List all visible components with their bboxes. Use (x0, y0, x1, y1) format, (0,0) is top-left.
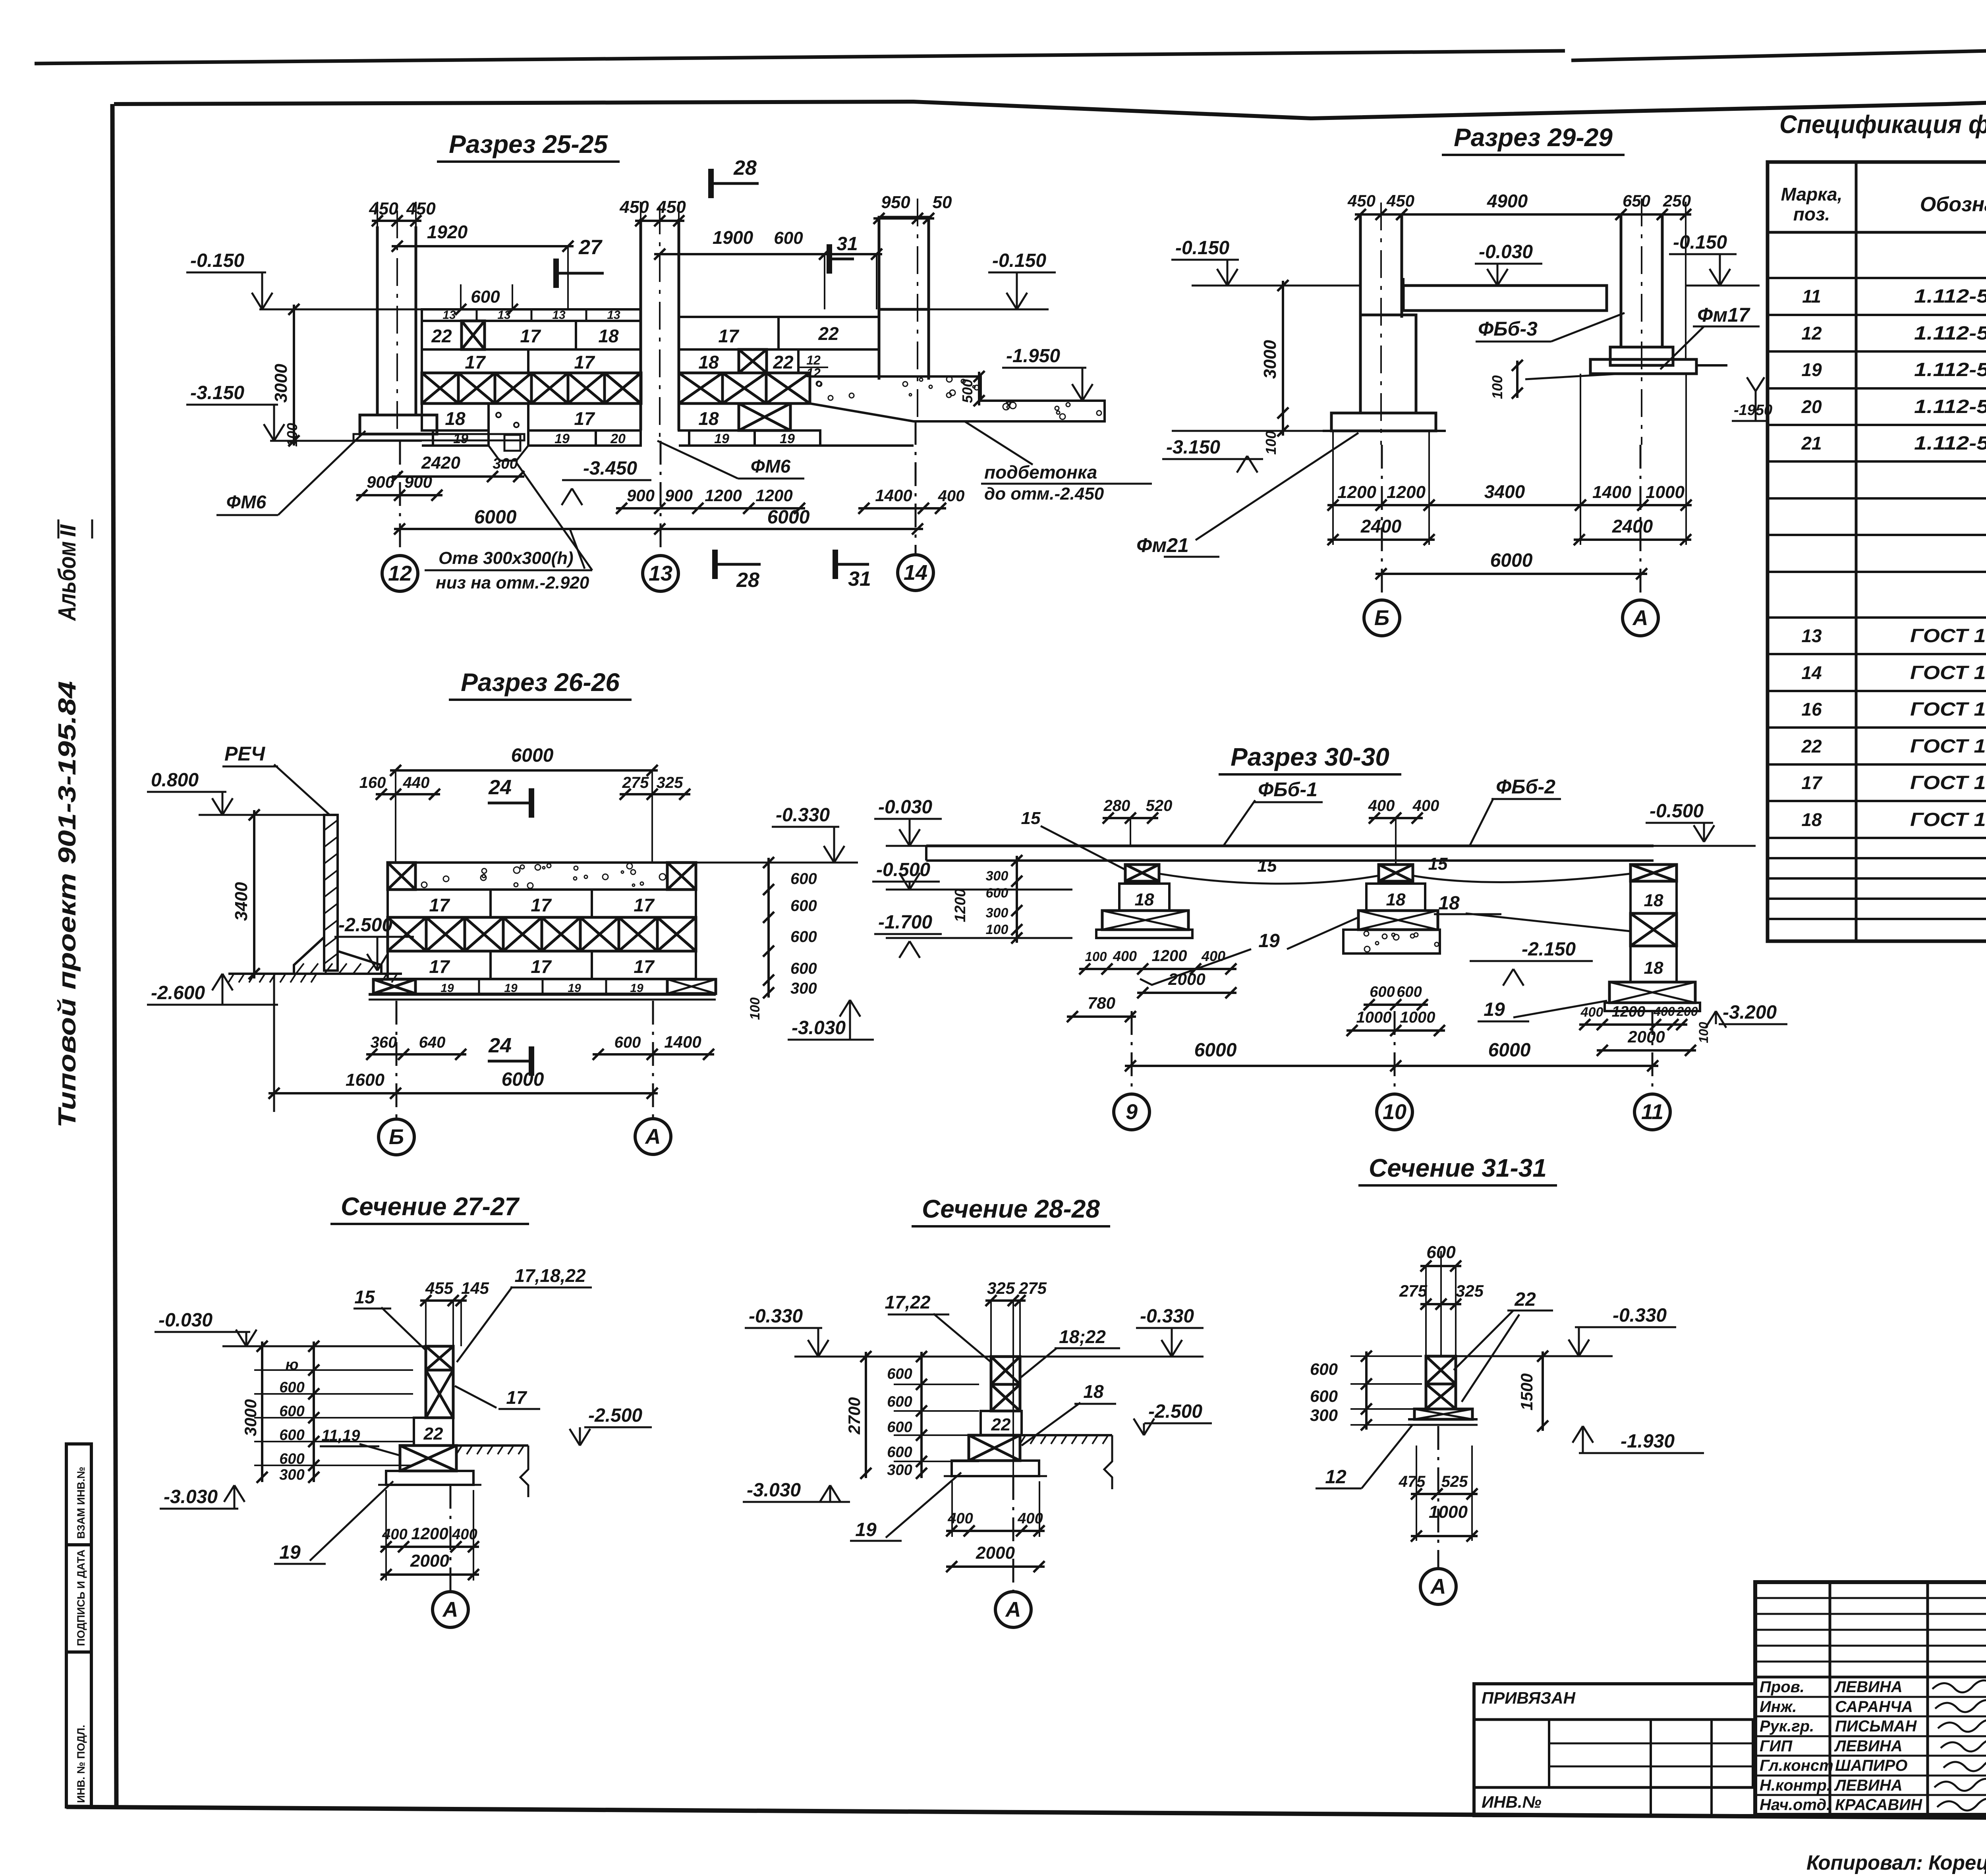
svg-text:28: 28 (733, 156, 757, 179)
svg-text:А: А (1005, 1598, 1021, 1621)
svg-text:22: 22 (818, 323, 839, 344)
svg-text:ИНВ. № ПОДЛ.: ИНВ. № ПОДЛ. (75, 1725, 87, 1803)
svg-text:18: 18 (1644, 891, 1663, 910)
svg-text:600: 600 (790, 870, 817, 888)
svg-text:2400: 2400 (1612, 516, 1653, 537)
svg-text:ГОСТ 13579-78: ГОСТ 13579-78 (1910, 699, 1986, 720)
svg-text:100: 100 (1085, 949, 1107, 964)
svg-text:400: 400 (1201, 948, 1225, 964)
svg-text:-0.030: -0.030 (878, 797, 932, 818)
svg-text:ЛЕВИНА: ЛЕВИНА (1834, 1737, 1903, 1755)
svg-text:3000: 3000 (271, 364, 291, 403)
svg-text:360: 360 (371, 1034, 397, 1051)
svg-text:15: 15 (1428, 854, 1448, 874)
svg-text:19: 19 (453, 431, 468, 446)
svg-text:18: 18 (1135, 890, 1154, 909)
svg-text:3400: 3400 (232, 882, 251, 921)
svg-text:16: 16 (1801, 699, 1822, 720)
svg-text:1200: 1200 (1152, 947, 1187, 965)
svg-text:ГОСТ 13579-78: ГОСТ 13579-78 (1910, 625, 1986, 647)
svg-text:100: 100 (986, 922, 1008, 937)
svg-text:650: 650 (1623, 191, 1650, 210)
svg-text:11: 11 (1802, 286, 1821, 307)
svg-text:10: 10 (1383, 1100, 1406, 1124)
svg-text:15: 15 (354, 1287, 375, 1307)
svg-text:-0.030: -0.030 (1479, 241, 1533, 262)
svg-text:21: 21 (1801, 433, 1822, 454)
svg-text:1400: 1400 (1592, 483, 1631, 502)
svg-text:19: 19 (630, 982, 643, 995)
svg-text:600: 600 (887, 1393, 912, 1410)
svg-text:275: 275 (1399, 1282, 1428, 1300)
svg-text:17,18,22: 17,18,22 (514, 1265, 585, 1286)
svg-text:780: 780 (1088, 994, 1115, 1012)
svg-text:1200: 1200 (1337, 483, 1376, 502)
svg-text:РЕЧ: РЕЧ (224, 743, 266, 765)
svg-text:Разрез 26-26: Разрез 26-26 (461, 668, 620, 697)
svg-text:6000: 6000 (474, 507, 517, 528)
svg-text:17,22: 17,22 (885, 1292, 931, 1312)
svg-text:14: 14 (904, 561, 927, 585)
svg-text:19: 19 (1801, 359, 1822, 380)
svg-text:6000: 6000 (767, 507, 810, 528)
svg-text:19: 19 (554, 431, 570, 446)
svg-text:300: 300 (493, 455, 518, 472)
svg-text:Фм21: Фм21 (1136, 534, 1189, 556)
svg-text:1.112-5 вып.2: 1.112-5 вып.2 (1914, 359, 1986, 380)
svg-text:325: 325 (1456, 1282, 1484, 1300)
svg-text:6000: 6000 (511, 745, 554, 766)
svg-text:600: 600 (1310, 1360, 1338, 1378)
svg-text:3000: 3000 (241, 1399, 260, 1436)
svg-text:17: 17 (465, 352, 486, 372)
svg-text:Сечение 27-27: Сечение 27-27 (341, 1192, 520, 1221)
svg-text:19: 19 (780, 431, 795, 446)
svg-text:1200: 1200 (411, 1524, 448, 1543)
svg-text:низ на отм.-2.920: низ на отм.-2.920 (436, 573, 589, 593)
svg-text:6000: 6000 (1488, 1040, 1531, 1061)
svg-text:1500: 1500 (1517, 1373, 1536, 1410)
svg-text:Обозначение: Обозначение (1920, 193, 1986, 216)
svg-text:300: 300 (790, 980, 817, 997)
svg-text:12: 12 (388, 562, 412, 585)
svg-text:24: 24 (488, 776, 512, 799)
svg-text:Разрез 25-25: Разрез 25-25 (449, 130, 608, 158)
svg-text:1200: 1200 (952, 889, 969, 923)
svg-text:САРАНЧА: САРАНЧА (1835, 1698, 1913, 1716)
svg-text:Б: Б (1374, 606, 1389, 630)
svg-text:19: 19 (279, 1542, 301, 1563)
svg-text:-3.150: -3.150 (190, 382, 244, 403)
svg-text:50: 50 (933, 193, 952, 212)
svg-text:600: 600 (790, 928, 817, 946)
svg-text:1200: 1200 (1612, 1004, 1646, 1020)
svg-text:600: 600 (790, 897, 817, 915)
svg-text:Сечение 28-28: Сечение 28-28 (922, 1195, 1100, 1223)
svg-text:-0.030: -0.030 (158, 1310, 213, 1331)
svg-text:450: 450 (1386, 191, 1414, 210)
svg-text:17: 17 (718, 326, 740, 346)
svg-text:ГИП: ГИП (1760, 1737, 1793, 1755)
svg-text:900: 900 (367, 473, 394, 491)
svg-text:400: 400 (947, 1510, 973, 1527)
svg-text:24: 24 (488, 1034, 512, 1057)
svg-text:2420: 2420 (421, 453, 460, 473)
svg-text:-2.150: -2.150 (1522, 939, 1576, 960)
svg-text:600: 600 (279, 1427, 304, 1444)
svg-text:6000: 6000 (502, 1069, 544, 1090)
svg-text:подбетонка: подбетонка (984, 462, 1097, 483)
svg-text:28: 28 (736, 569, 759, 592)
svg-text:17: 17 (634, 956, 655, 977)
svg-text:275: 275 (1018, 1279, 1047, 1297)
svg-text:100: 100 (1696, 1022, 1711, 1043)
svg-text:3400: 3400 (1484, 481, 1525, 502)
svg-text:-2.500: -2.500 (1148, 1401, 1202, 1422)
svg-text:31: 31 (837, 234, 858, 255)
svg-text:19: 19 (1484, 999, 1505, 1020)
svg-text:Отв 300х300(h): Отв 300х300(h) (439, 548, 574, 568)
svg-text:-1.930: -1.930 (1621, 1431, 1675, 1452)
svg-text:1600: 1600 (346, 1070, 384, 1090)
svg-text:27: 27 (578, 236, 603, 259)
svg-text:600: 600 (887, 1419, 912, 1436)
svg-text:19: 19 (1258, 930, 1280, 952)
svg-text:-0.330: -0.330 (776, 805, 830, 826)
svg-text:450: 450 (656, 197, 686, 217)
svg-text:640: 640 (419, 1034, 446, 1051)
svg-text:ПИСЬМАН: ПИСЬМАН (1835, 1718, 1917, 1735)
svg-text:1.112-5 вып.2: 1.112-5 вып.2 (1914, 433, 1986, 454)
svg-text:19: 19 (714, 431, 729, 446)
svg-text:-3.150: -3.150 (1166, 437, 1220, 458)
svg-text:600: 600 (1370, 984, 1395, 1000)
svg-text:2000: 2000 (1627, 1027, 1665, 1046)
svg-text:-2.600: -2.600 (151, 982, 205, 1004)
svg-text:-0.500: -0.500 (876, 859, 930, 880)
svg-text:-0.330: -0.330 (749, 1306, 803, 1327)
svg-text:900: 900 (627, 486, 655, 505)
svg-text:ИНВ.№: ИНВ.№ (1482, 1793, 1542, 1811)
svg-text:ФБб-1: ФБб-1 (1258, 778, 1318, 801)
svg-text:12: 12 (1801, 323, 1822, 344)
svg-text:325: 325 (987, 1279, 1015, 1297)
svg-text:100: 100 (748, 998, 763, 1020)
svg-text:400: 400 (1368, 797, 1395, 814)
svg-text:-1.950: -1.950 (1006, 345, 1060, 367)
svg-text:Альбом: Альбом (54, 541, 81, 621)
svg-text:15: 15 (1021, 809, 1041, 828)
svg-text:ВЗАМ ИНВ.№: ВЗАМ ИНВ.№ (75, 1467, 87, 1539)
svg-text:19: 19 (440, 982, 454, 995)
svg-text:1400: 1400 (664, 1033, 701, 1051)
svg-text:18: 18 (1801, 809, 1822, 830)
svg-text:400: 400 (1412, 797, 1439, 814)
svg-text:400: 400 (382, 1526, 407, 1543)
svg-text:1.112-5 вып.2: 1.112-5 вып.2 (1914, 323, 1986, 344)
svg-text:17: 17 (429, 895, 450, 915)
svg-text:-2.500: -2.500 (588, 1405, 642, 1426)
svg-text:6000: 6000 (1194, 1040, 1237, 1061)
svg-text:100: 100 (1489, 375, 1505, 399)
svg-text:600: 600 (614, 1034, 641, 1051)
svg-text:300: 300 (1310, 1406, 1338, 1424)
svg-text:950: 950 (881, 193, 910, 212)
svg-text:280: 280 (1103, 797, 1130, 814)
svg-text:18: 18 (698, 408, 719, 429)
svg-text:900: 900 (404, 473, 432, 491)
svg-text:600: 600 (471, 287, 500, 307)
svg-text:ЛЕВИНА: ЛЕВИНА (1834, 1777, 1903, 1794)
svg-text:600: 600 (1397, 984, 1422, 1000)
svg-text:17: 17 (531, 956, 552, 977)
svg-text:1000: 1000 (1400, 1009, 1435, 1026)
svg-text:300: 300 (279, 1467, 304, 1483)
svg-text:Разрез 30-30: Разрез 30-30 (1231, 743, 1389, 771)
svg-text:12: 12 (1325, 1467, 1347, 1488)
svg-text:КРАСАВИН: КРАСАВИН (1835, 1796, 1922, 1814)
svg-text:1000: 1000 (1429, 1502, 1468, 1522)
svg-text:-0.150: -0.150 (992, 250, 1046, 271)
svg-text:Инж.: Инж. (1760, 1698, 1797, 1716)
svg-text:-3.030: -3.030 (792, 1017, 846, 1038)
svg-text:400: 400 (1017, 1510, 1043, 1527)
svg-text:-1.700: -1.700 (878, 912, 932, 933)
svg-text:15: 15 (1258, 856, 1277, 876)
svg-text:450: 450 (369, 199, 398, 218)
svg-text:ФМ6: ФМ6 (226, 492, 267, 512)
svg-text:19: 19 (855, 1519, 877, 1540)
svg-text:20: 20 (610, 431, 626, 446)
svg-text:145: 145 (461, 1279, 489, 1297)
svg-text:600: 600 (887, 1366, 912, 1382)
svg-text:Нач.отд.: Нач.отд. (1760, 1796, 1831, 1814)
svg-text:600: 600 (774, 228, 803, 248)
svg-text:900: 900 (665, 486, 693, 505)
svg-text:А: А (645, 1125, 661, 1148)
svg-text:-3.200: -3.200 (1723, 1002, 1777, 1023)
svg-text:ГОСТ 13579-78: ГОСТ 13579-78 (1910, 809, 1986, 830)
svg-text:Рук.гр.: Рук.гр. (1760, 1718, 1814, 1735)
svg-text:18: 18 (1083, 1381, 1104, 1402)
svg-text:17: 17 (1801, 772, 1823, 793)
svg-text:Копировал: Корецкая: Копировал: Корецкая (1806, 1851, 1986, 1874)
svg-text:-0.150: -0.150 (190, 250, 244, 271)
svg-text:-0.500: -0.500 (1650, 801, 1704, 822)
svg-text:Гл.конст: Гл.конст (1760, 1757, 1833, 1774)
svg-text:600: 600 (790, 960, 817, 977)
svg-text:400: 400 (1580, 1005, 1603, 1020)
svg-text:А: А (442, 1598, 458, 1621)
svg-text:ФМ6: ФМ6 (751, 456, 791, 477)
svg-text:1000: 1000 (1356, 1009, 1392, 1026)
svg-text:160: 160 (359, 774, 386, 791)
svg-text:17: 17 (429, 956, 450, 977)
svg-text:22: 22 (423, 1424, 443, 1444)
svg-text:22: 22 (991, 1415, 1011, 1434)
svg-text:400: 400 (1113, 948, 1137, 964)
svg-text:200: 200 (1676, 1004, 1698, 1019)
svg-text:ФБб-3: ФБб-3 (1478, 318, 1538, 340)
svg-text:Пров.: Пров. (1760, 1678, 1804, 1696)
svg-text:275: 275 (622, 774, 649, 791)
svg-text:13: 13 (649, 562, 672, 585)
svg-text:-3.030: -3.030 (747, 1480, 801, 1501)
svg-text:поз.: поз. (1793, 204, 1830, 224)
svg-text:17: 17 (574, 408, 595, 429)
svg-text:600: 600 (279, 1451, 304, 1467)
svg-text:Разрез 29-29: Разрез 29-29 (1454, 123, 1613, 152)
svg-text:22: 22 (1801, 736, 1822, 757)
svg-text:1200: 1200 (705, 486, 742, 505)
svg-text:1920: 1920 (427, 222, 468, 242)
svg-text:1400: 1400 (875, 486, 912, 505)
svg-text:18: 18 (698, 352, 719, 372)
svg-text:450: 450 (1347, 191, 1376, 210)
svg-text:450: 450 (406, 199, 436, 218)
svg-text:17: 17 (574, 352, 595, 372)
svg-text:ГОСТ 13579-78: ГОСТ 13579-78 (1910, 772, 1986, 793)
svg-text:Сечение 31-31: Сечение 31-31 (1369, 1154, 1547, 1182)
svg-text:2000: 2000 (410, 1551, 449, 1571)
svg-text:18: 18 (1386, 890, 1406, 909)
svg-text:450: 450 (619, 197, 649, 217)
svg-text:-3.030: -3.030 (164, 1486, 218, 1507)
svg-text:18: 18 (598, 326, 619, 346)
svg-text:-2.500: -2.500 (338, 915, 392, 936)
svg-text:2000: 2000 (976, 1543, 1015, 1563)
svg-text:600: 600 (279, 1379, 304, 1396)
svg-text:2700: 2700 (845, 1397, 864, 1434)
svg-text:17: 17 (531, 895, 552, 915)
svg-text:520: 520 (1146, 797, 1173, 814)
svg-text:Типовой проект 901-3-195.84: Типовой проект 901-3-195.84 (54, 681, 81, 1128)
svg-text:1.112-5 вып.2: 1.112-5 вып.2 (1914, 286, 1986, 307)
svg-text:300: 300 (986, 869, 1008, 884)
svg-text:ПОДПИСЬ И ДАТА: ПОДПИСЬ И ДАТА (75, 1550, 87, 1646)
svg-text:-0.150: -0.150 (1673, 232, 1727, 253)
svg-text:А: А (1430, 1575, 1446, 1598)
svg-text:18: 18 (1644, 958, 1663, 978)
svg-text:14: 14 (1801, 662, 1822, 683)
svg-text:ШАПИРО: ШАПИРО (1835, 1757, 1907, 1774)
svg-text:ГОСТ 13579-78: ГОСТ 13579-78 (1910, 662, 1986, 683)
svg-text:600: 600 (887, 1444, 912, 1461)
svg-text:ю: ю (286, 1357, 299, 1373)
svg-text:600: 600 (986, 886, 1008, 901)
svg-text:11,19: 11,19 (321, 1427, 360, 1444)
svg-text:19: 19 (568, 982, 581, 995)
svg-text:13: 13 (1801, 625, 1822, 646)
svg-text:475: 475 (1399, 1473, 1426, 1490)
svg-text:Фм17: Фм17 (1697, 304, 1750, 326)
svg-text:17: 17 (634, 895, 655, 915)
svg-text:-0.330: -0.330 (1613, 1305, 1667, 1326)
svg-text:20: 20 (1801, 396, 1822, 417)
svg-text:19: 19 (504, 982, 518, 995)
svg-text:525: 525 (1441, 1473, 1468, 1490)
svg-text:-0.330: -0.330 (1140, 1306, 1194, 1327)
svg-text:400: 400 (452, 1526, 477, 1543)
svg-text:31: 31 (848, 567, 871, 591)
svg-text:17: 17 (506, 1387, 527, 1408)
svg-text:ГОСТ 13579-78: ГОСТ 13579-78 (1910, 736, 1986, 757)
svg-text:18: 18 (445, 408, 466, 429)
svg-text:1000: 1000 (1646, 483, 1685, 502)
svg-text:400: 400 (938, 487, 965, 505)
svg-text:1900: 1900 (713, 227, 753, 248)
svg-text:22: 22 (431, 326, 452, 346)
svg-text:300: 300 (986, 905, 1008, 921)
svg-text:22: 22 (773, 352, 794, 372)
svg-text:250: 250 (1663, 191, 1691, 210)
svg-text:ЛЕВИНА: ЛЕВИНА (1834, 1678, 1903, 1696)
svg-text:17: 17 (520, 326, 541, 346)
svg-text:2000: 2000 (1168, 970, 1205, 988)
svg-text:ФБб-2: ФБб-2 (1496, 776, 1555, 798)
svg-text:11: 11 (1641, 1100, 1663, 1124)
svg-text:Н.контр.: Н.контр. (1760, 1777, 1831, 1794)
svg-text:18;22: 18;22 (1059, 1326, 1106, 1347)
svg-text:600: 600 (1310, 1387, 1338, 1405)
svg-text:400: 400 (1653, 1004, 1675, 1019)
svg-text:до отм.-2.450: до отм.-2.450 (984, 484, 1104, 504)
svg-text:3000: 3000 (1260, 340, 1280, 379)
svg-text:9: 9 (1126, 1100, 1138, 1124)
svg-text:ПРИВЯЗАН: ПРИВЯЗАН (1482, 1689, 1576, 1707)
svg-text:-1950: -1950 (1734, 402, 1772, 419)
svg-text:600: 600 (279, 1403, 304, 1420)
svg-text:Марка,: Марка, (1781, 184, 1843, 205)
svg-text:500: 500 (959, 379, 976, 403)
svg-text:Спецификация фундаментных бл: Спецификация фундаментных блоков и плит (1779, 110, 1986, 139)
svg-text:1.112-5 вып.2: 1.112-5 вып.2 (1914, 396, 1986, 417)
svg-text:300: 300 (887, 1462, 912, 1478)
svg-text:4900: 4900 (1487, 191, 1528, 211)
svg-text:6000: 6000 (1490, 550, 1533, 571)
svg-text:Б: Б (389, 1125, 404, 1149)
svg-text:455: 455 (425, 1279, 454, 1297)
svg-text:325: 325 (657, 774, 683, 791)
svg-text:1200: 1200 (1387, 483, 1426, 502)
svg-text:1200: 1200 (755, 486, 792, 505)
svg-text:440: 440 (403, 774, 430, 791)
svg-text:18: 18 (1438, 893, 1460, 914)
svg-text:22: 22 (1514, 1289, 1536, 1310)
svg-text:-0.150: -0.150 (1175, 237, 1229, 259)
svg-text:0.800: 0.800 (151, 770, 199, 791)
svg-text:-3.450: -3.450 (583, 458, 637, 479)
svg-text:12: 12 (806, 353, 821, 367)
svg-text:100: 100 (1263, 431, 1279, 455)
svg-text:А: А (1632, 606, 1648, 630)
